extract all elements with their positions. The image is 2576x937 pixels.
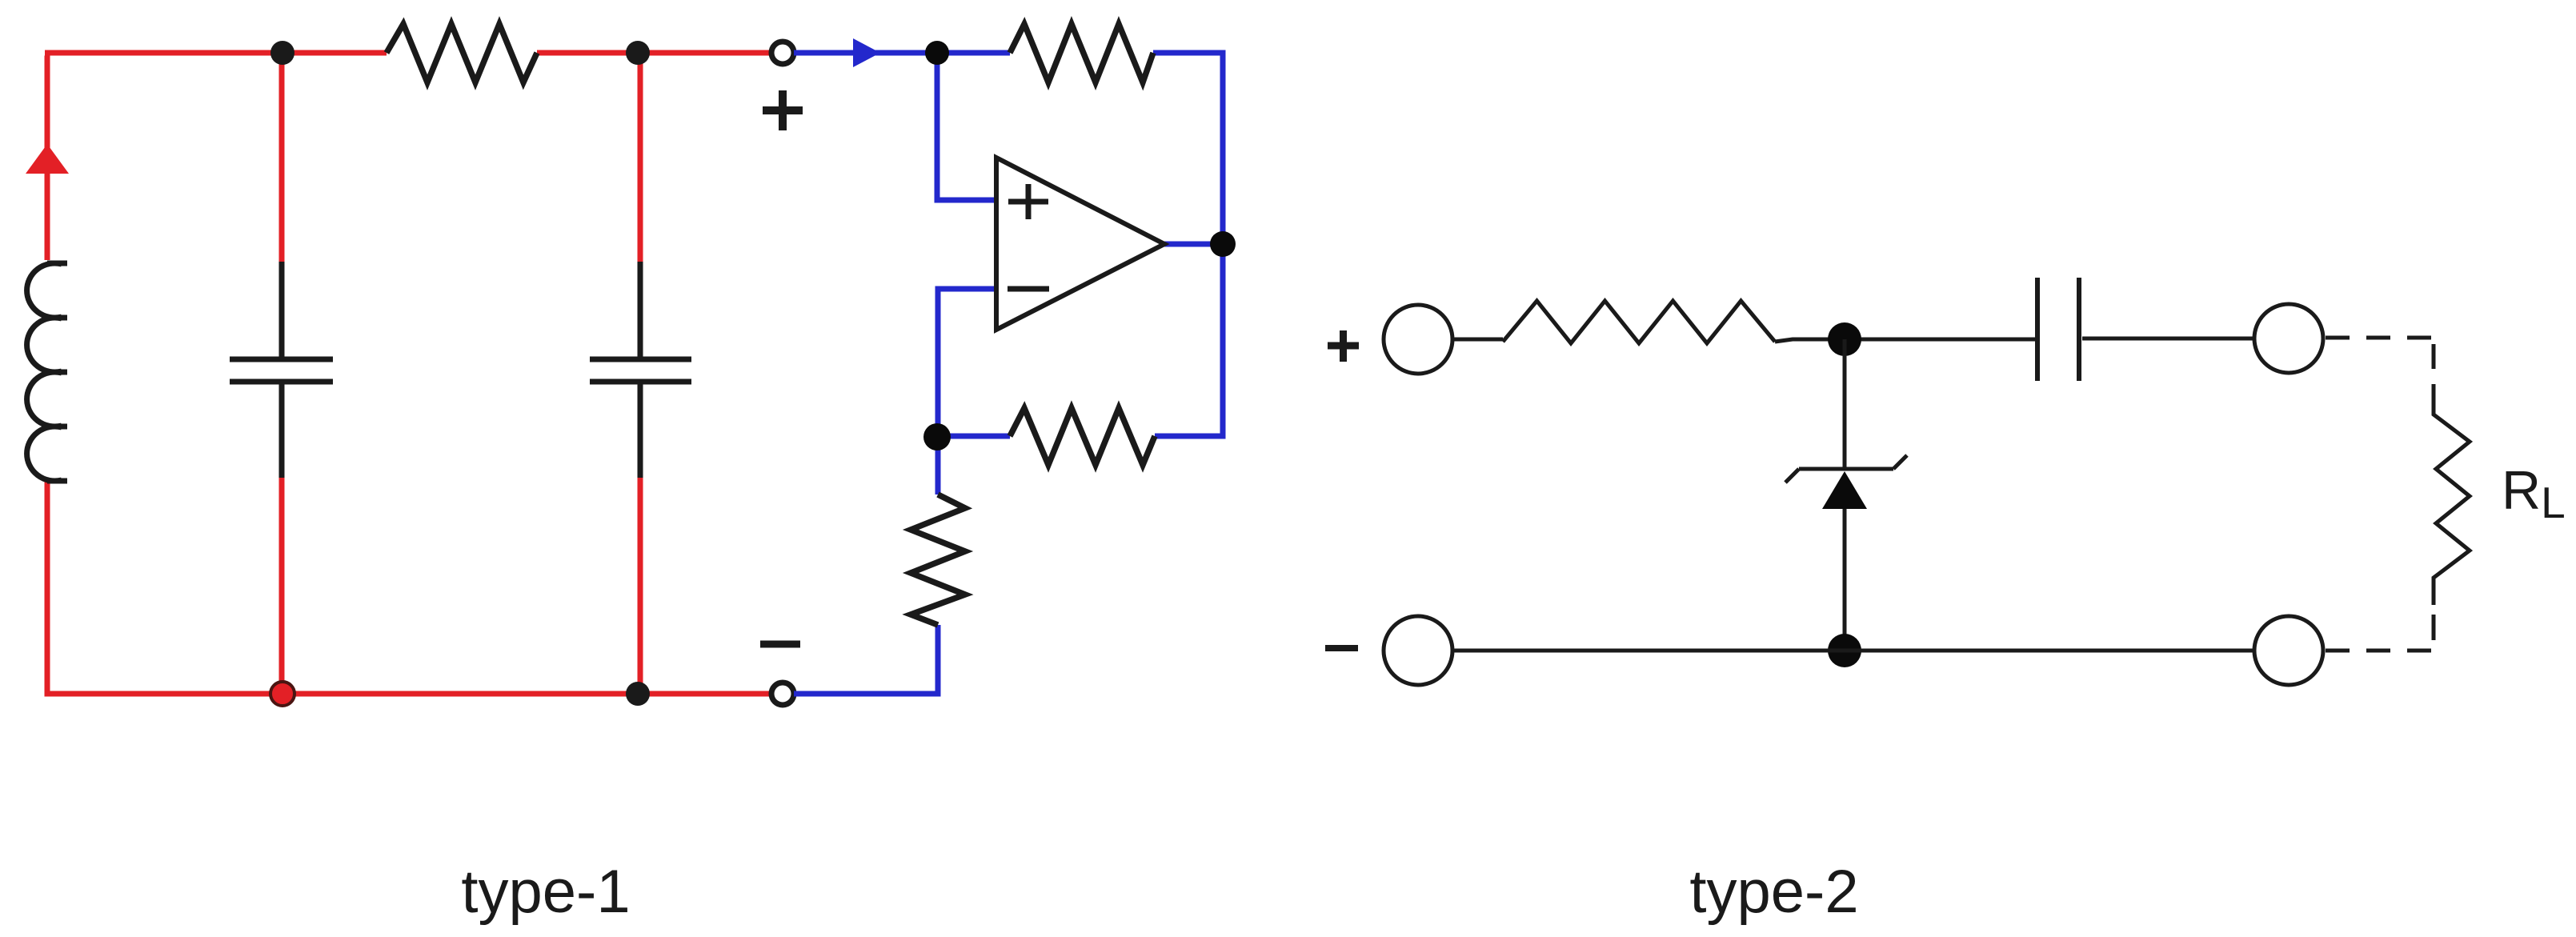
resistor R5 bbox=[1503, 301, 1775, 343]
label plus 2 bbox=[1328, 330, 1359, 362]
svg-text:type-1: type-1 bbox=[461, 858, 630, 926]
node dot z-bottom bbox=[1828, 634, 1861, 667]
capacitor C3 bbox=[2037, 278, 2079, 381]
node dot blue top bbox=[925, 41, 949, 65]
svg-text:type-2: type-2 bbox=[1689, 858, 1858, 926]
terminal circle +2 bbox=[1384, 305, 1452, 374]
wire to resistor bbox=[1452, 338, 1503, 342]
terminal - circle bbox=[771, 683, 794, 705]
wire dashed bottom bbox=[2326, 649, 2434, 653]
wire blue -input rail bbox=[938, 289, 996, 495]
label minus bbox=[760, 641, 800, 648]
node dot output bbox=[1210, 231, 1236, 257]
wire bottom rail bbox=[1452, 649, 2254, 653]
current arrow bbox=[26, 144, 69, 174]
terminal circle out-bottom bbox=[2254, 616, 2323, 685]
node dot z-top bbox=[1828, 322, 1861, 356]
zener wire bottom bbox=[1843, 509, 1847, 651]
capacitor C1 bbox=[230, 262, 333, 478]
node dot bottom red bbox=[270, 682, 294, 706]
terminal + circle bbox=[771, 42, 794, 64]
node dot top-2 bbox=[626, 41, 650, 65]
inductor L1 bbox=[47, 263, 67, 481]
node dot top-1 bbox=[270, 41, 294, 65]
resistor R2 feedback top bbox=[1010, 24, 1153, 82]
wire blue output bbox=[1164, 242, 1223, 247]
op-amp U1 bbox=[996, 158, 1164, 330]
wire blue top feedback right bbox=[1153, 50, 1223, 439]
label minus 2 bbox=[1325, 645, 1358, 651]
arrow blue bbox=[853, 38, 880, 67]
resistor R3 feedback mid bbox=[1010, 408, 1155, 465]
wire resistor to node bbox=[1775, 339, 2037, 342]
node dot bottom-2 bbox=[626, 682, 650, 706]
wire dashed top bbox=[2326, 336, 2434, 340]
capacitor C2 bbox=[590, 262, 691, 478]
terminal circle -2 bbox=[1384, 616, 1452, 685]
op-amp plus bbox=[1008, 184, 1048, 219]
op-amp minus bbox=[1008, 286, 1049, 292]
terminal circle out-top bbox=[2254, 304, 2323, 373]
wire red top-left loop bbox=[45, 53, 772, 697]
resistor R4 vertical bbox=[911, 495, 965, 625]
wire blue mid feedback bbox=[937, 434, 1223, 439]
node dot mid bbox=[923, 423, 951, 450]
resistor R1 top bbox=[387, 24, 537, 82]
wire blue bottom bbox=[794, 625, 941, 694]
resistor RL bbox=[2434, 384, 2470, 605]
wire cap to terminal bbox=[2082, 337, 2253, 341]
label plus bbox=[763, 90, 803, 130]
zener diode D1 bbox=[1785, 455, 1907, 483]
wire blue input top bbox=[794, 50, 1010, 56]
zener wire top bbox=[1843, 339, 1847, 469]
wire blue to +input bbox=[937, 53, 996, 200]
